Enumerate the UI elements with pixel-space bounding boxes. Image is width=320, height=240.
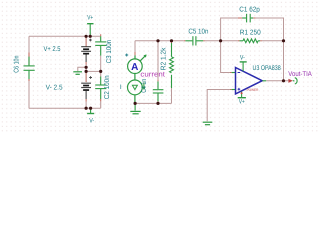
wire bottom rail V- net [29,107,101,109]
wire R1 to output column [262,40,284,42]
wire node column up to C1 row [221,18,243,41]
capacitor C4 [153,41,164,104]
svg-text:V+ 2.5: V+ 2.5 [44,46,61,53]
svg-text:V- 2.5: V- 2.5 [46,84,63,91]
svg-text:R1 250: R1 250 [240,30,261,37]
wire output column down [283,41,285,81]
junction dot output column top [282,39,285,42]
output pin arrow [288,79,292,83]
svg-text:V-: V- [89,117,94,124]
svg-text:U3 OPA838: U3 OPA838 [253,65,281,72]
wire R2 bottom to CS rail [171,88,173,103]
junction dot node column [219,39,222,42]
junction dot C4 bottom [156,102,159,105]
junction dot output row [282,79,285,82]
wire CS bottom rail [135,102,171,104]
op-amp inv input stub [232,72,236,74]
junction dot top rail V+ terminal [89,35,92,38]
op-amp output stub [262,80,266,82]
capacitor C2 [95,71,106,108]
wire C3 bottom [100,56,102,72]
svg-text:C3 100n: C3 100n [106,40,113,64]
battery V2 [81,71,92,101]
svg-text:C4 1n: C4 1n [141,79,148,93]
junction dot main row R2 [170,39,173,42]
wire main row left [135,40,184,42]
ammeter U1 [128,52,147,80]
svg-text:A: A [131,62,138,73]
svg-text:C2 100n: C2 100n [104,75,111,99]
wire top rail V+ net [29,35,100,37]
svg-text:R2 1.2k: R2 1.2k [160,47,168,70]
wire output row [266,80,288,82]
svg-text:I: I [120,84,122,91]
svg-text:C5 10n: C5 10n [188,29,208,36]
wire below C6 [28,81,30,108]
capacitor C6 [24,53,35,82]
op-amp U3 triangle [236,68,263,94]
junction dot bottom rail V2 [85,107,88,110]
svg-text:C1 62p: C1 62p [239,6,260,13]
svg-text:V+: V+ [87,14,93,21]
wire V2 bottom [85,102,87,109]
wire node column down to inv input [221,41,230,73]
svg-text:V+: V+ [239,99,245,106]
wire ammeter column top [134,41,136,52]
op-amp non-inv stub [232,89,236,91]
junction dot CS bottom [134,102,137,105]
resistor R2 [170,41,174,88]
ammeter plus mark [125,54,128,57]
current source I1 [127,80,145,103]
wire C1 right to output column [255,18,283,41]
junction dot bottom rail V- terminal [89,107,92,110]
op-amp plus sign [238,88,241,91]
battery V1 [81,36,92,64]
wire node to R1 [221,40,238,42]
op-amp bottom supply stem [238,92,246,106]
terminal V+ top-left [87,14,93,36]
op-amp minus sign [238,72,241,74]
terminal V- bottom-left [87,108,94,124]
junction dot mid rail V2 [85,70,88,73]
resistor R1 [238,39,262,43]
wire mid rail [86,70,101,72]
wire non-inv input [207,90,230,122]
capacitor C3 [95,34,106,56]
junction dot top rail V1 [85,35,88,38]
ground at op-amp non-inv [203,122,213,125]
non-inv input pin tick [230,89,232,91]
capacitor C1 [238,14,257,23]
wire left side of left loop [28,36,30,54]
wire V1 bottom to mid rail [85,65,87,72]
inv input pin tick [230,72,232,74]
junction dot V1 bottom stub [85,66,88,69]
ground under current source [130,103,140,113]
ground mid-left [73,72,82,75]
op-amp top supply stem [240,55,247,72]
capacitor C5 [184,36,205,45]
output pin symbol [293,78,297,84]
wire stub to mid ground [78,67,86,71]
junction dot main row C4 [156,39,159,42]
svg-text:V-: V- [240,55,245,62]
svg-text:C6 10n: C6 10n [14,55,21,72]
wire C5 to node [205,40,221,42]
svg-text:POWER: POWER [247,88,259,92]
svg-text:Vout-TIA: Vout-TIA [288,71,312,78]
junction dot mid rail C3/C2 [99,70,102,73]
